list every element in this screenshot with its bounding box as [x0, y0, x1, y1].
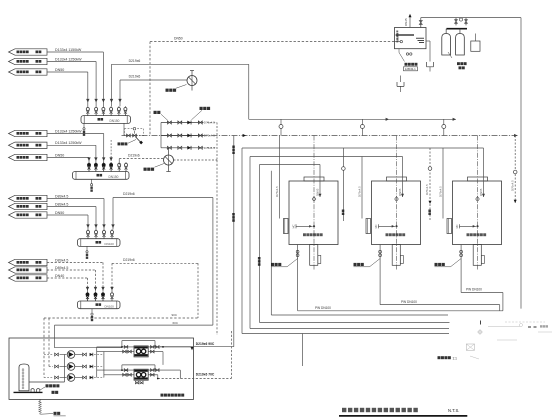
strainer (Y-filter) [136, 137, 142, 143]
water softener cylinders [442, 34, 451, 56]
check valve branch 3 [187, 146, 191, 150]
wire flag F6 to manifold FS-2 [47, 157, 89, 159]
label filter [118, 142, 121, 145]
wire discharge P3 (dashed) [94, 377, 104, 379]
flag tag F1 (heat source supply) [9, 49, 48, 55]
wire SV2 collector (dashed) [174, 159, 218, 161]
tank base line [14, 391, 43, 393]
svg-text:MC: MC [292, 224, 296, 228]
wire flag F1 to manifold FS-1 [47, 51, 103, 53]
wire pump discharge collector [96, 347, 98, 378]
check valve branch 1 [187, 121, 191, 125]
gas hot-water unit HU-1 body [289, 181, 338, 245]
svg-text:DN100: DN100 [105, 242, 115, 246]
wire cold feed into box [55, 324, 213, 326]
wire flag F8 to manifold FS-3 [47, 206, 96, 208]
wire dashed make-up drop to exchanger room [197, 263, 199, 318]
gate valve branch 2a [167, 134, 171, 137]
svg-text:DN40: DN40 [55, 274, 64, 278]
HX1 cold pipe [97, 351, 134, 353]
svg-text:DN150: DN150 [110, 119, 120, 123]
svg-text:D76x4.5: D76x4.5 [204, 134, 216, 138]
condensate storage tank [19, 364, 29, 391]
svg-text:PW DN100: PW DN100 [401, 300, 417, 304]
wire right edge return main [520, 18, 522, 309]
unit HU-2 side bracket [366, 219, 371, 234]
unit HU-1 top cap [304, 177, 324, 181]
drawing title [342, 408, 346, 412]
svg-text:D219x6: D219x6 [123, 192, 135, 196]
tank fill valve [420, 18, 422, 28]
wire flag F4 to manifold FS-2 [47, 133, 104, 135]
wire riser to cold water line [248, 64, 250, 119]
base mounted pumps [31, 389, 34, 393]
wire stub riser into exchanger box [302, 334, 304, 367]
drain valve under manifold FS-3 [86, 246, 88, 250]
small tick [479, 321, 481, 325]
discharge valve P2 [83, 365, 87, 368]
boundary make-up dashed line [44, 317, 198, 319]
svg-text:1:1: 1:1 [453, 357, 458, 361]
wire secondary drop at unit HU-2 [342, 148, 344, 221]
gate valve branch 1c [198, 121, 202, 124]
flag tag F11 [9, 267, 48, 273]
label SV2 [144, 168, 147, 171]
wire discharge P2 (dashed) [94, 366, 104, 368]
valves on manifold FS-1 [87, 112, 89, 115]
unit HU-2 supply drop [402, 157, 404, 198]
gate valve branch 1b [178, 121, 182, 124]
wire DN50 make-up line (dashed) [150, 41, 395, 43]
unit HU-1 flue below [310, 245, 318, 266]
svg-text:DN65: DN65 [479, 188, 483, 196]
svg-text:D89x4.5: D89x4.5 [55, 202, 68, 206]
label SV1 [166, 89, 169, 92]
unit HU-2 internal valve [395, 197, 399, 202]
wire branch-group right collector (dashed) [216, 123, 218, 161]
svg-text:D76x4.5: D76x4.5 [510, 180, 514, 191]
flag tag F2 (heat source supply) [9, 58, 48, 64]
wire spare stub (dashed) right of unit HU-3 [514, 136, 516, 204]
svg-text:D219x6 90C: D219x6 90C [196, 342, 215, 346]
unit HU-3 side bracket [447, 219, 452, 234]
unit HU-2 flue below [392, 245, 400, 266]
wire D219x6 70C return (dashed) [158, 378, 232, 380]
tank overflow pipe [426, 40, 430, 42]
bypass loop (dashed) with valve [124, 129, 143, 136]
wire riser FS-3 to exchanger box [212, 198, 214, 326]
gas hot-water unit HU-3 body [453, 181, 502, 245]
wire return riser [270, 171, 272, 315]
wire PW DN100 drain unit HU-2 [380, 304, 500, 306]
unit HU-1 flue centerline (dash-dot) [313, 136, 315, 270]
suction valve P3 [55, 376, 59, 379]
suction valve P2 [55, 365, 59, 368]
unit HU-1 side bracket [284, 219, 289, 234]
safety valve SV2 (circle symbol) [164, 155, 174, 165]
svg-text:D76x4.5: D76x4.5 [275, 186, 279, 197]
gate valve branch 3c [198, 146, 202, 149]
valves on manifold FS-2 [88, 168, 90, 171]
safety valve SV1 (circle symbol) [187, 76, 197, 86]
label check valve [200, 107, 203, 110]
unit HU-3 condensate label [451, 259, 462, 267]
svg-text:D133x4 1250kW: D133x4 1250kW [55, 129, 82, 133]
wire D219x6 header line-1 [112, 63, 249, 65]
unit HU-3 supply drop [483, 148, 485, 197]
suction valve P1 [55, 353, 59, 356]
gas hot-water unit HU-2 body [372, 181, 421, 245]
svg-text:90C: 90C [172, 313, 178, 317]
flag tag F6 [9, 154, 48, 160]
svg-text:D219x6: D219x6 [129, 59, 141, 63]
wire make-up dashed riser [216, 160, 218, 335]
svg-text:D76x4.5: D76x4.5 [357, 186, 361, 197]
svg-text:PW DN100: PW DN100 [315, 306, 331, 310]
wire branch-group left header [160, 123, 162, 148]
tank drain valves [406, 53, 408, 55]
manifold FS-1 (DN150 collector) [81, 116, 131, 124]
svg-text:D76x4.5: D76x4.5 [204, 146, 216, 150]
unit HU-3 top cap [468, 177, 488, 181]
svg-text:N.T.S.: N.T.S. [448, 408, 459, 413]
wire unit-2 supply riser [249, 157, 251, 329]
svg-text:D76x4.5: D76x4.5 [204, 121, 216, 125]
unit HU-1 condensate label [287, 259, 298, 267]
wire main distribution line (dash-dot) [122, 135, 518, 137]
unit HU-2 internal pipe [379, 225, 396, 227]
gate valve branch 3a [167, 146, 171, 149]
flag tag F3 (heat source supply) [9, 69, 48, 75]
check valve branch 2 [187, 134, 191, 138]
flag tag F8 [9, 203, 48, 209]
gate valve branch 1a [167, 121, 171, 124]
unit HU-2 return drop to bracket [361, 157, 363, 219]
wire flag F2 to manifold FS-1 [47, 61, 96, 63]
three-way valve with bypass [133, 134, 137, 137]
wire HX2 loop top [122, 364, 155, 366]
heat exchanger HX-2 [134, 369, 148, 380]
gate valve branch 2c [198, 134, 202, 137]
wire HX1 loop top [122, 340, 155, 342]
svg-text:PW DN100: PW DN100 [466, 288, 482, 292]
faint floor drain detail [466, 344, 474, 350]
unit HU-2 condensate label [370, 259, 381, 267]
label ZJ-1 tank [405, 63, 408, 66]
drain funnel [397, 82, 404, 86]
check valve P2 [90, 365, 93, 368]
box drain with flexible connector [39, 399, 41, 401]
wire branch row 3 [161, 147, 204, 149]
make-up pump P2 [67, 363, 75, 371]
svg-text:D76x4.5: D76x4.5 [425, 184, 429, 195]
gate valve branch 3b [178, 146, 182, 149]
wire flag F11 to manifold FS-4 (dashed) [47, 269, 96, 271]
HX2 cold pipe [104, 374, 134, 376]
svg-text:D133x4 1150kW: D133x4 1150kW [55, 48, 82, 52]
wire unit-1 supply riser [259, 165, 261, 323]
wire loop line (3) [260, 322, 450, 324]
HX2 hot inlet pipe [97, 369, 134, 371]
valves on manifold FS-3 [87, 236, 89, 239]
unit HU-2 flue centerline (dash-dot) [396, 136, 398, 270]
wire flag F9 to manifold FS-3 [47, 214, 88, 216]
manifold FS-4 collector [78, 301, 121, 309]
valve on main line [127, 134, 131, 137]
svg-text:D133x4 1250kW: D133x4 1250kW [55, 57, 82, 61]
unit HU-3 flue centerline (dash-dot) [477, 136, 479, 270]
svg-text:DN100: DN100 [105, 305, 115, 309]
drain valve under manifold FS-4 [91, 309, 93, 313]
wire loop line (1) [242, 333, 449, 335]
manifold FS-3 collector [78, 239, 121, 247]
flag tag F10 [9, 259, 48, 265]
unit HU-3 internal valve [476, 197, 480, 202]
salt tank [471, 41, 480, 51]
svg-text:D89x4.5: D89x4.5 [55, 194, 68, 198]
wire secondary drop at unit HU-3 (dashed) [429, 148, 431, 221]
svg-text:DN65: DN65 [398, 188, 402, 196]
wire supply header to unit HU-2 [250, 156, 403, 158]
wire PW DN100 drain unit HU-3 [461, 292, 503, 294]
unit HU-1 internal node [313, 225, 315, 227]
wire D219x6 header line-2 [120, 79, 187, 81]
check valve P3 [90, 376, 93, 379]
wire flag F5 to manifold FS-2 [47, 144, 96, 146]
unit HU-3 nameplate text [467, 233, 470, 236]
label sanitary detail 1:1 [438, 356, 441, 359]
softener valve manifold [455, 18, 457, 26]
svg-text:DN50: DN50 [174, 36, 183, 40]
unit HU-1 return drop to bracket [279, 136, 281, 219]
label exchanger set [161, 394, 164, 397]
check valve P1 [90, 353, 93, 356]
wire flag F12 to manifold FS-4 (dashed) [47, 277, 88, 279]
drain valve under manifold FS-2 [91, 179, 93, 183]
wire softened water top header [421, 17, 521, 19]
wire loop line (4) [271, 314, 448, 316]
svg-text:D89x4.5: D89x4.5 [55, 266, 68, 270]
svg-text:D219x6 70C: D219x6 70C [196, 373, 215, 377]
svg-text:DN65: DN65 [316, 188, 320, 196]
svg-text:DN50: DN50 [55, 68, 64, 72]
wire discharge P1 (dashed) [94, 354, 104, 356]
tank level gauge text [396, 31, 398, 33]
svg-text:D219x6: D219x6 [123, 258, 135, 262]
unit HU-1 internal valve [312, 197, 316, 202]
wire 90C main riser [233, 136, 235, 347]
unit HU-3 internal node [477, 225, 479, 227]
HX2 drain valves [135, 381, 138, 384]
svg-text:12B43-1: 12B43-1 [405, 67, 416, 71]
label softener unit [457, 62, 460, 65]
discharge valve P1 [83, 353, 87, 356]
wire unit-3 supply riser [241, 148, 243, 334]
valves on manifold FS-4 [87, 298, 89, 301]
svg-text:D76x4.5: D76x4.5 [438, 186, 442, 197]
wire D219x6 90C main [160, 346, 234, 348]
svg-text:DN150: DN150 [109, 175, 119, 179]
wire supply header to unit HU-3 [242, 147, 484, 149]
flag tag F12 [9, 275, 48, 281]
label transfer pumps [46, 384, 49, 387]
wire D219x6 dashed branch to safety valve SV2 [119, 158, 163, 160]
make-up pump P1 [67, 351, 75, 359]
flag tag F4 [9, 130, 48, 136]
wire branch row 1 [161, 122, 204, 124]
wire flag F3 to manifold FS-1 [47, 71, 88, 73]
drain valve under manifold FS-1 [83, 123, 85, 127]
gate valve branch 2b [178, 134, 182, 137]
svg-text:MC: MC [374, 224, 378, 228]
wire flag F7 to manifold FS-3 [47, 198, 104, 200]
float valve in tank [395, 41, 401, 43]
manifold FS-2 (DN150 collector) [73, 172, 130, 180]
svg-text:DN50: DN50 [55, 153, 64, 157]
unit HU-1 internal pipe [296, 225, 313, 227]
svg-text:DN50: DN50 [55, 211, 64, 215]
wire flag F10 to manifold FS-4 (dashed) [47, 262, 103, 264]
svg-text:D133x4 1250kW: D133x4 1250kW [55, 141, 82, 145]
svg-text:DN25: DN25 [404, 18, 408, 26]
wire D219x6 from manifold FS-3 [113, 197, 213, 199]
label gate valve [154, 111, 157, 114]
svg-text:D219x6: D219x6 [129, 75, 141, 79]
stub valve on cold water header [280, 119, 282, 135]
unit HU-2 condensate drain pipe [379, 245, 381, 305]
wire tank outlet [29, 381, 65, 383]
unit HU-3 condensate drain pipe [460, 245, 462, 293]
HX1 hot inlet pipe [97, 346, 134, 348]
wire cold water horizontal header [249, 118, 456, 120]
stub valve on cold water header [443, 119, 445, 135]
svg-text:60C: 60C [173, 321, 179, 325]
make-up water tank ZJ-1 [395, 28, 427, 49]
unit HU-1 supply drop [319, 165, 321, 198]
flag tag F9 [9, 212, 48, 218]
unit HU-1 condensate drain pipe [297, 245, 299, 311]
wire supply header to unit HU-1 [260, 164, 321, 166]
unit HU-2 nameplate text [386, 233, 389, 236]
label drain [54, 412, 57, 415]
make-up pump P3 [67, 374, 75, 382]
stub valve on cold water header [361, 119, 363, 135]
exchanger room enclosure box [9, 338, 194, 399]
unit HU-1 nameplate text [303, 233, 306, 236]
wire PW collector risers [499, 305, 501, 311]
wire D219x6 dashed from manifold FS-4 [112, 262, 198, 264]
discharge valve P3 [83, 376, 87, 379]
svg-text:MC: MC [455, 224, 459, 228]
wire manifold FS-1 outlet stub [123, 123, 125, 135]
wire dashed interconnect FS-1 to FS-2 [110, 140, 112, 167]
svg-text:D219x6: D219x6 [128, 153, 140, 157]
unit HU-3 internal pipe [460, 225, 477, 227]
make-up pump P2 suction (dashed) [49, 366, 53, 368]
tank vent pipe DN25 [409, 16, 411, 28]
svg-text:D89x4.5: D89x4.5 [55, 258, 68, 262]
unit HU-3 return drop to bracket [442, 148, 444, 219]
make-up pump P3 suction (dashed) [44, 377, 53, 379]
unit HU-2 top cap [387, 177, 407, 181]
flag tag F7 [9, 195, 48, 201]
unit HU-2 internal node [396, 225, 398, 227]
unit HU-3 flue below [473, 245, 481, 266]
wire loop line (2) [250, 328, 449, 330]
heat exchanger HX-1 [134, 346, 148, 357]
make-up pump P1 suction (dashed) [44, 354, 53, 356]
flag tag F5 [9, 142, 48, 148]
wire PW DN100 drain unit HU-1 [298, 310, 503, 312]
wire branch row 2 [161, 135, 204, 137]
